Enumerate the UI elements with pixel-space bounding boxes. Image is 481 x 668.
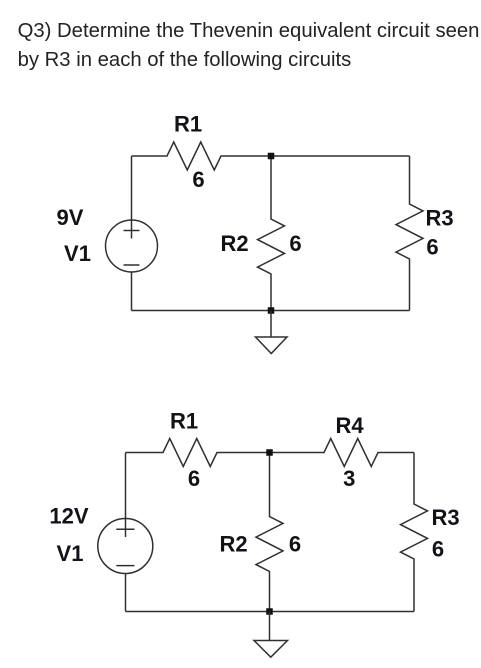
svg-text:6: 6 — [426, 235, 438, 260]
svg-text:6: 6 — [432, 537, 444, 562]
svg-text:R1: R1 — [174, 112, 202, 137]
svg-text:6: 6 — [188, 466, 200, 491]
svg-text:R1: R1 — [170, 409, 198, 434]
svg-text:V1: V1 — [64, 241, 91, 266]
svg-text:R2: R2 — [220, 231, 248, 256]
svg-text:6: 6 — [289, 532, 301, 557]
svg-text:3: 3 — [343, 466, 355, 491]
svg-text:6: 6 — [289, 231, 301, 256]
svg-text:9V: 9V — [57, 205, 84, 230]
svg-text:12V: 12V — [49, 504, 88, 529]
svg-text:6: 6 — [192, 167, 204, 192]
svg-text:R2: R2 — [219, 532, 247, 557]
svg-text:R3: R3 — [431, 505, 459, 530]
svg-text:V1: V1 — [57, 541, 84, 566]
svg-text:R3: R3 — [425, 206, 453, 231]
svg-text:R4: R4 — [335, 413, 364, 438]
